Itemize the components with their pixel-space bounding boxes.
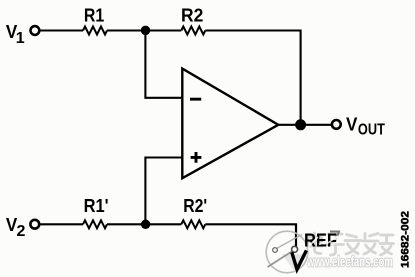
terminal VOUT xyxy=(332,120,341,129)
resistor R2 xyxy=(181,27,205,35)
wire R2 to output node xyxy=(205,31,300,125)
svg-text:16682-002: 16682-002 xyxy=(400,211,412,268)
label VOUT xyxy=(346,114,385,139)
wire V2 to R1' xyxy=(40,223,83,225)
wire node A down to inverting input xyxy=(145,31,182,98)
svg-text:R2': R2' xyxy=(183,195,207,216)
label V1 xyxy=(6,21,25,47)
resistor R2' xyxy=(181,220,205,228)
REF down-arrow symbol xyxy=(292,250,307,269)
plus symbol xyxy=(191,152,202,163)
watermark dark fragment xyxy=(330,232,339,237)
svg-text:1: 1 xyxy=(16,30,25,47)
minus symbol xyxy=(190,98,201,101)
svg-text:OUT: OUT xyxy=(358,122,385,139)
wire V1 to R1 xyxy=(40,29,83,31)
wire node B up to non-inverting input xyxy=(145,158,182,225)
resistor R1' xyxy=(83,220,107,228)
label V2 xyxy=(6,214,26,240)
svg-text:V: V xyxy=(346,114,358,135)
resistor R1 xyxy=(83,27,107,35)
watermark streaks over REF xyxy=(309,236,338,246)
wire op-amp output to VOUT terminal xyxy=(277,124,331,126)
watermark chinese characters xyxy=(308,233,394,255)
node B junction xyxy=(141,220,151,230)
watermark logo circle xyxy=(266,231,308,273)
svg-text:2: 2 xyxy=(17,223,26,240)
svg-text:R2: R2 xyxy=(181,4,203,25)
wire R1' to R2' xyxy=(107,223,181,225)
op-amp U1 xyxy=(182,69,278,179)
output node xyxy=(295,119,306,130)
terminal V1 xyxy=(31,26,40,35)
wire R1 to R2 xyxy=(107,29,181,31)
svg-text:www.elecfans.com: www.elecfans.com xyxy=(306,255,393,271)
svg-text:R1: R1 xyxy=(84,4,104,25)
node A junction xyxy=(141,26,151,36)
terminal V2 xyxy=(30,220,39,229)
wire R2' to REF corner xyxy=(205,224,296,247)
svg-text:R1': R1' xyxy=(84,195,109,216)
